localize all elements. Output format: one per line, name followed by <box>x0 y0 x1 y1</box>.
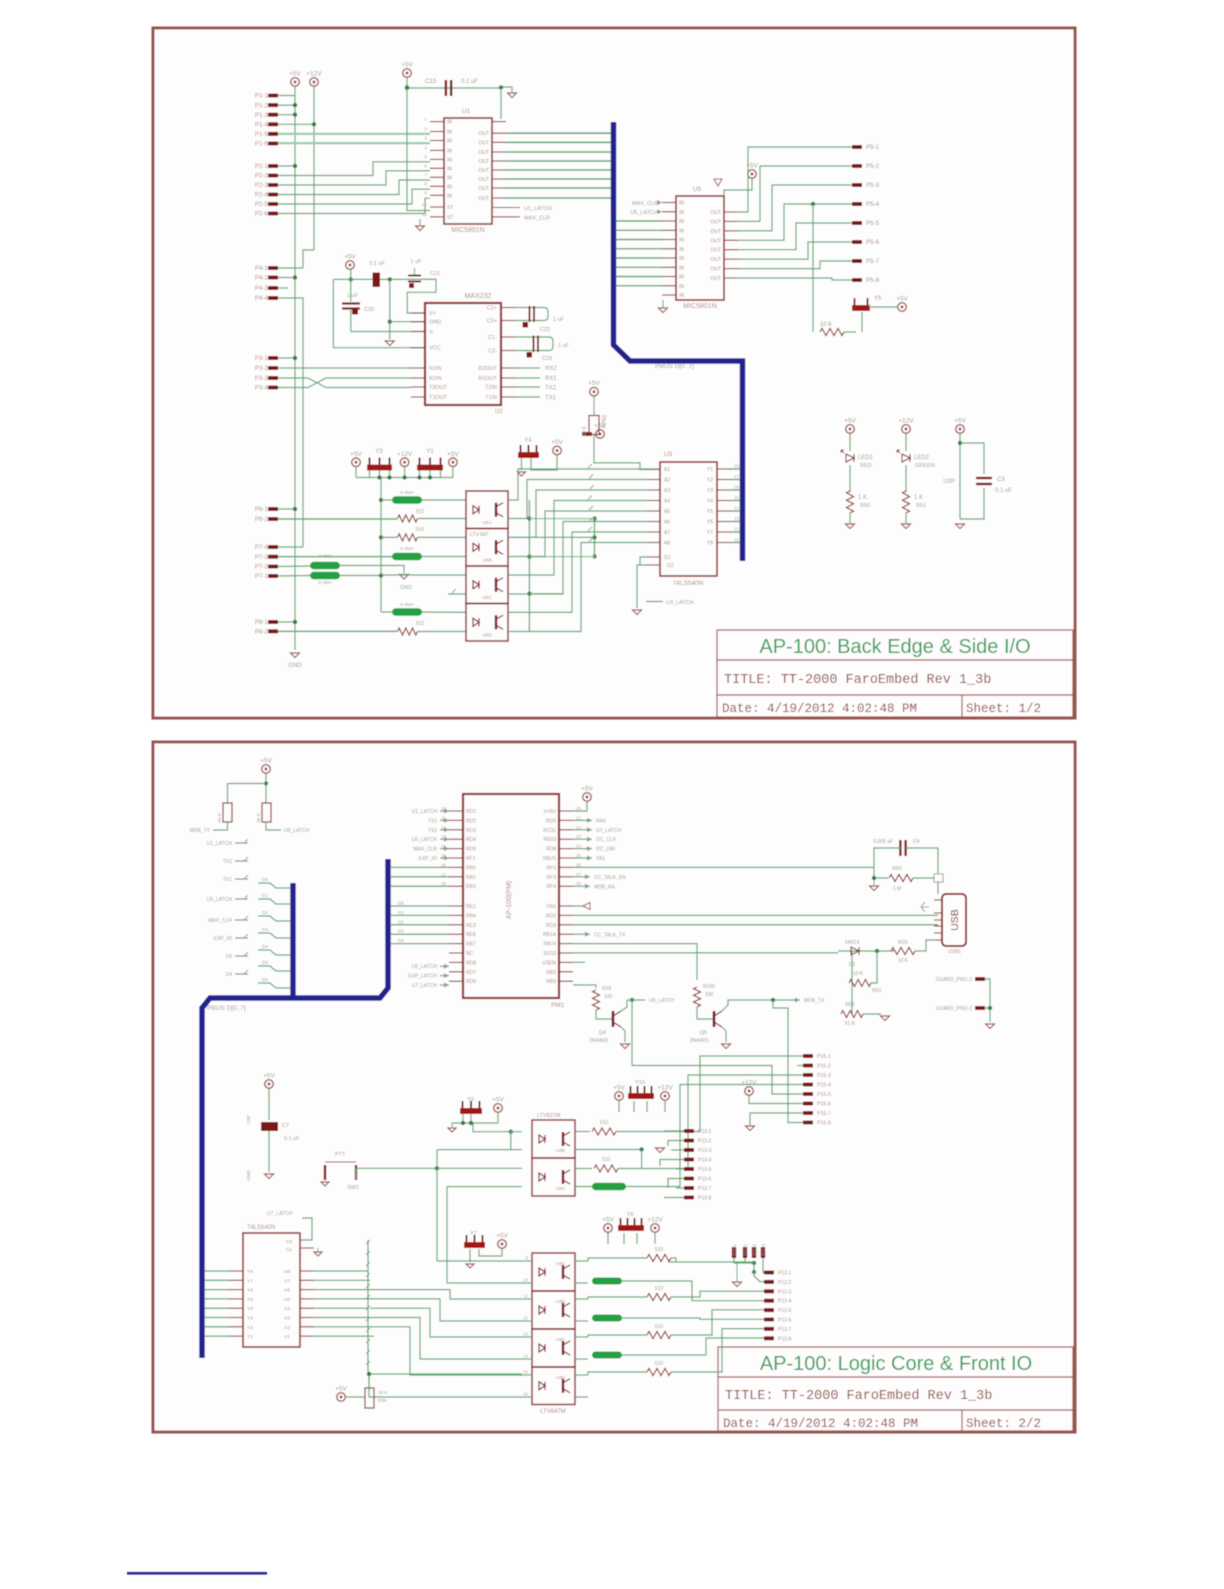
wire U3 Y8 to bus <box>731 542 740 544</box>
transistor Q4 2N4403 <box>613 1011 621 1027</box>
svg-text:P6-1: P6-1 <box>255 506 269 513</box>
power +5V pullups <box>260 758 272 774</box>
svg-text:LTV827M: LTV827M <box>537 1113 561 1119</box>
capacitor C23 loop <box>515 337 553 351</box>
resistor 510 out row3 <box>647 1332 671 1339</box>
wire bus to U6 2 <box>205 1289 229 1291</box>
capacitor C21 1uF <box>414 268 416 276</box>
svg-text:+5V: +5V <box>289 71 301 78</box>
wire down to R68 <box>851 983 853 1014</box>
wire LED1 top <box>849 434 851 452</box>
svg-text:OUT: OUT <box>478 196 489 202</box>
wire LED2 bottom <box>905 513 907 524</box>
svg-text:7: 7 <box>424 172 427 178</box>
wire LED2 top <box>905 434 907 452</box>
svg-text:21: 21 <box>576 815 581 820</box>
wire to diode D2 row <box>573 952 838 954</box>
wire RB0 long right <box>573 866 874 868</box>
svg-text:R1IN: R1IN <box>429 376 442 382</box>
svg-text:P15-2: P15-2 <box>817 1064 831 1070</box>
svg-text:28: 28 <box>576 881 581 886</box>
wire C7 top <box>268 1089 270 1121</box>
PM1 right pin RE03 <box>559 838 573 840</box>
svg-text:20: 20 <box>576 806 581 811</box>
wire U5 out to P5-3 <box>738 185 852 231</box>
junction MDB_TX <box>771 998 775 1002</box>
pin P11-1 vertical <box>732 1247 736 1258</box>
wire riser 437 <box>436 1150 438 1261</box>
label I2C_CLK from PM1 <box>573 838 592 840</box>
svg-text:U3P: U3P <box>246 1115 252 1124</box>
ground at C13 right <box>501 87 512 92</box>
wire P1-6 to U1 <box>278 142 430 144</box>
U2 pin V- <box>411 331 425 333</box>
pin P2-5 <box>268 202 278 206</box>
svg-text:OUT: OUT <box>710 229 721 235</box>
sheet 2 frame <box>153 742 1075 1432</box>
pin P2-1 <box>268 164 278 168</box>
svg-text:C13: C13 <box>425 79 437 85</box>
svg-text:P15-8: P15-8 <box>817 1121 831 1127</box>
U3 pin Y6 <box>717 521 731 523</box>
svg-text:EE03: EE03 <box>544 951 556 957</box>
wire bus tap to PM1 lower <box>391 924 449 926</box>
wire row4 P7-3 <box>278 556 392 558</box>
U1 output pin 8 <box>492 197 506 199</box>
svg-text:PBUS D[0..7]: PBUS D[0..7] <box>655 363 694 370</box>
svg-text:PM1: PM1 <box>551 1002 565 1009</box>
wire Y9 rail <box>452 1122 473 1124</box>
svg-text:P7-1: P7-1 <box>255 573 269 580</box>
svg-text:Y10: Y10 <box>635 1080 645 1086</box>
pin P15-5 <box>803 1092 813 1096</box>
wire +12V jog <box>303 250 314 268</box>
wire row6 P8-2 <box>278 630 398 632</box>
svg-text:A1: A1 <box>664 467 670 473</box>
wire U5 out to P5-4 <box>738 204 852 240</box>
svg-text:510: 510 <box>602 1157 611 1163</box>
U5 output pin 5 <box>724 249 738 251</box>
crystal Y4 <box>521 445 537 452</box>
power +5V opto row <box>350 451 362 467</box>
svg-text:TITLE: TT-2000 FaroEmbed Rev: TITLE: TT-2000 FaroEmbed Rev 1_3b <box>724 673 991 688</box>
wire Q4 base net <box>573 985 596 988</box>
svg-text:10 K: 10 K <box>853 971 864 977</box>
svg-text:Y1: Y1 <box>247 1334 253 1340</box>
svg-text:0.1 uF: 0.1 uF <box>369 261 385 267</box>
wire G2 latch <box>637 565 646 608</box>
U8 outputs row1 <box>575 1131 590 1133</box>
U5 left pin <box>662 220 676 222</box>
svg-text:D1: D1 <box>398 910 404 915</box>
svg-text:RB7: RB7 <box>466 942 476 948</box>
U1 strobe pin wire <box>492 207 520 209</box>
svg-text:SW1: SW1 <box>347 1185 359 1191</box>
svg-text:Y4: Y4 <box>247 1306 253 1312</box>
svg-text:Y7: Y7 <box>470 1231 477 1237</box>
junction P1-3 <box>293 113 297 117</box>
svg-text:Y9: Y9 <box>467 1097 474 1103</box>
ground SW1 <box>321 1182 329 1186</box>
svg-text:100: 100 <box>705 992 714 998</box>
svg-text:P7-2: P7-2 <box>255 564 269 571</box>
wire bus to U5 pin 6 <box>616 266 662 268</box>
svg-text:P7-4: P7-4 <box>255 544 269 551</box>
wire U9 out 6 <box>575 1374 588 1376</box>
svg-text:510: 510 <box>600 1120 609 1126</box>
U2 pin C1+ <box>501 307 515 309</box>
pin P4-2 <box>268 276 278 280</box>
svg-text:10: 10 <box>523 1278 528 1283</box>
svg-text:IN: IN <box>679 219 684 225</box>
svg-text:Sheet: 1/2: Sheet: 1/2 <box>966 702 1041 716</box>
pin P2-4 <box>268 193 278 197</box>
U5 left pin <box>662 211 676 213</box>
wire U3 Y2 to bus <box>731 479 740 481</box>
svg-text:0 ohm: 0 ohm <box>318 580 331 586</box>
capacitor C22 plates <box>530 306 535 322</box>
bus tap D6 <box>258 983 290 988</box>
wire R69 to pad <box>913 877 934 879</box>
svg-text:A6: A6 <box>284 1288 290 1294</box>
svg-text:IN: IN <box>447 184 452 190</box>
wire U1 out2 to bus <box>506 141 611 143</box>
svg-text:A2: A2 <box>284 1325 290 1331</box>
svg-text:Y7: Y7 <box>247 1278 253 1284</box>
wire U9 out 4 <box>575 1336 588 1338</box>
svg-text:RX1: RX1 <box>545 376 557 382</box>
svg-text:RED: RED <box>860 463 872 469</box>
svg-text:Y4: Y4 <box>707 499 713 505</box>
pin P12-8 <box>764 1336 774 1340</box>
pin P15-8 <box>803 1121 813 1125</box>
wire Y7 stubs <box>469 1249 471 1262</box>
svg-text:P7-3: P7-3 <box>255 554 269 561</box>
wire D2 diode row <box>838 950 894 952</box>
svg-text:+12V: +12V <box>741 1080 757 1087</box>
wire G1 feed <box>640 557 646 565</box>
wire R63 right <box>871 951 877 983</box>
capacitor C3 <box>976 478 992 484</box>
wire P3-1 <box>278 357 295 359</box>
svg-text:OUT: OUT <box>710 219 721 225</box>
U6 pin Y4 <box>229 1307 243 1309</box>
wire RPN2 top leg <box>227 784 229 804</box>
svg-text:IN: IN <box>447 175 452 181</box>
svg-text:0 ohm: 0 ohm <box>400 546 413 552</box>
bus tap D0 <box>258 883 290 888</box>
svg-text:D0: D0 <box>398 901 404 906</box>
svg-text:30 K: 30 K <box>217 812 223 823</box>
wire bus tap to PM1 lower <box>391 905 449 907</box>
bus tap D3 <box>258 933 290 938</box>
svg-text:P13-7: P13-7 <box>698 1186 712 1192</box>
pin P12-1 <box>764 1271 774 1275</box>
power +5V C3 <box>954 418 966 434</box>
PM1 left pin RD5 <box>449 848 463 850</box>
wire U5 out to P5-8 <box>738 278 852 280</box>
svg-text:R18: R18 <box>602 986 611 992</box>
IC U6 74LS540N box <box>243 1233 300 1347</box>
svg-text:P2-6: P2-6 <box>255 211 269 218</box>
svg-text:+5V: +5V <box>588 380 600 387</box>
resistor R50 1K <box>847 491 854 513</box>
svg-text:10: 10 <box>422 202 428 208</box>
svg-text:OUT: OUT <box>478 186 489 192</box>
wire U1 out3 to bus <box>506 151 611 153</box>
U6 output 6 <box>300 1317 314 1319</box>
pin P5-6 <box>852 240 862 244</box>
svg-text:A7: A7 <box>284 1278 290 1284</box>
wire bus tap to PM1 lower <box>391 933 449 935</box>
pin P4-1 <box>268 266 278 270</box>
svg-text:MIC5801N: MIC5801N <box>683 303 716 310</box>
optocoupler U6 cell 3 <box>466 566 508 604</box>
resistor green 0ohm row1 <box>392 496 422 504</box>
svg-text:RB4: RB4 <box>466 913 476 919</box>
svg-text:R50: R50 <box>860 503 870 509</box>
resistor green U9 row3 <box>592 1352 622 1359</box>
svg-text:ST: ST <box>447 215 453 221</box>
svg-text:P3-3: P3-3 <box>255 375 269 382</box>
resistor RPN3 <box>262 803 271 822</box>
svg-text:TX2: TX2 <box>223 859 232 865</box>
wire U1 VDD drop <box>500 88 502 119</box>
svg-text:3: 3 <box>424 136 427 142</box>
svg-text:0.1 uF: 0.1 uF <box>461 79 478 85</box>
U6 output 4 <box>300 1298 314 1300</box>
U1 left pin <box>430 185 444 187</box>
U5 output pin 6 <box>724 258 738 260</box>
pin P15-2 <box>803 1064 813 1068</box>
wire bus to U6 5 <box>205 1317 229 1319</box>
ground guards <box>986 1024 995 1029</box>
resistor 510 U8 row1 <box>592 1128 616 1135</box>
svg-text:P2-5: P2-5 <box>255 201 269 208</box>
svg-text:RD2: RD2 <box>546 913 556 919</box>
pin P2-2 <box>268 174 278 178</box>
PM1 right pin RF3 <box>559 876 573 878</box>
svg-text:OUT: OUT <box>478 150 489 156</box>
svg-text:1 uF: 1 uF <box>410 259 422 265</box>
wire U1 out6 to bus <box>506 178 611 180</box>
svg-text:T2OUT: T2OUT <box>429 385 448 391</box>
svg-text:U3_LATCH: U3_LATCH <box>666 600 694 606</box>
wires 510 rows to P12 <box>671 1258 676 1262</box>
pin P3-3 <box>268 376 278 380</box>
svg-text:RB2: RB2 <box>546 970 556 976</box>
svg-text:IN: IN <box>447 193 452 199</box>
wire bottom resistor up <box>368 1374 370 1388</box>
svg-text:P5-3: P5-3 <box>866 182 880 189</box>
PM1 right pin RF4 <box>559 885 573 887</box>
junction P5-4 tap <box>811 202 815 206</box>
svg-text:P13-3: P13-3 <box>698 1148 712 1154</box>
svg-text:U8_LATCH: U8_LATCH <box>284 828 310 834</box>
svg-text:U1_LATCH: U1_LATCH <box>207 841 233 847</box>
svg-text:C2-: C2- <box>488 349 497 355</box>
U5 left pin <box>662 285 676 287</box>
U5 output pin 8 <box>724 277 738 279</box>
svg-text:510: 510 <box>655 1361 664 1367</box>
pin P15-4 <box>803 1083 813 1087</box>
power +5V PM1 <box>581 786 593 802</box>
svg-text:Y7: Y7 <box>707 530 713 536</box>
svg-text:P3-4: P3-4 <box>255 385 269 392</box>
svg-text:Sheet: 2/2: Sheet: 2/2 <box>966 1417 1041 1431</box>
svg-text:C22: C22 <box>540 327 550 333</box>
wire row1 right <box>616 1056 803 1132</box>
PM1 right pin RC31 <box>559 829 573 831</box>
pin P5-4 <box>852 202 862 206</box>
svg-text:G1: G1 <box>664 555 671 561</box>
svg-text:P1-6: P1-6 <box>255 141 269 148</box>
svg-text:+5V: +5V <box>263 1073 275 1080</box>
svg-text:+5V: +5V <box>581 786 593 793</box>
svg-text:U1_LATCH: U1_LATCH <box>412 809 438 815</box>
pin P15-1 <box>803 1054 813 1058</box>
svg-text:P5-1: P5-1 <box>866 144 880 151</box>
pin P3-4 <box>268 386 278 390</box>
svg-text:PBUS D[0..7]: PBUS D[0..7] <box>207 1005 246 1012</box>
wire P2-6 staircase <box>278 198 430 213</box>
wire C3 top link <box>960 443 984 474</box>
power +5V C7 <box>263 1073 275 1089</box>
resistor R51 1K <box>903 491 910 513</box>
svg-text:16: 16 <box>523 1392 528 1397</box>
svg-text:OUT: OUT <box>478 177 489 183</box>
U1 left pin <box>430 216 444 218</box>
svg-text:U5_LATCH: U5_LATCH <box>207 897 233 903</box>
wire to GND pin <box>390 321 426 323</box>
ground P13 <box>656 1148 665 1153</box>
svg-text:P12-8: P12-8 <box>778 1336 792 1342</box>
optocoupler U6 cell 2 <box>466 529 508 567</box>
wire bus to U6 0 <box>205 1270 229 1272</box>
ground U3 latch <box>633 610 642 615</box>
resistor 510 out row2 <box>647 1294 671 1301</box>
sheet 1 frame <box>153 28 1075 718</box>
wire rail drop <box>380 478 382 613</box>
ground C7 <box>265 1174 274 1179</box>
PM1 left pin RD7 <box>449 971 463 973</box>
wire P15-2 stub <box>797 1065 803 1067</box>
pin P4-4 <box>268 296 278 300</box>
wire P7-4 <box>278 546 303 548</box>
svg-text:Y8: Y8 <box>707 541 713 547</box>
svg-text:2N4401: 2N4401 <box>690 1038 709 1044</box>
svg-text:TX1: TX1 <box>223 877 232 883</box>
U1 output pin 7 <box>492 187 506 189</box>
svg-text:RD0: RD0 <box>546 818 556 824</box>
svg-text:RB0: RB0 <box>466 865 476 871</box>
svg-text:GND: GND <box>246 1169 252 1180</box>
svg-text:D0: D0 <box>262 877 268 882</box>
U5 output pin 4 <box>724 239 738 241</box>
wire opto out 4 to U3 <box>508 511 646 557</box>
svg-text:RE2: RE2 <box>466 904 476 910</box>
svg-text:14: 14 <box>734 506 740 511</box>
wire USB D- long <box>573 924 938 926</box>
wire bus tap to PM1 lower <box>391 943 449 945</box>
svg-text:OUT: OUT <box>710 210 721 216</box>
resistor 510 row2 <box>398 515 418 522</box>
pin P15-3 <box>803 1073 813 1077</box>
U6 pin Y8 <box>229 1270 243 1272</box>
wire row5 right <box>422 611 466 613</box>
svg-text:IN: IN <box>447 148 452 154</box>
U2 pin T2IN <box>501 386 515 388</box>
U3 pin A4 <box>646 500 660 502</box>
PM1 left pin RF1 <box>449 857 463 859</box>
svg-text:16: 16 <box>734 485 740 490</box>
wire RX1 out <box>515 377 540 379</box>
U1 left pin <box>430 121 444 123</box>
svg-text:USEN: USEN <box>542 960 556 966</box>
svg-text:Q6: Q6 <box>700 1030 707 1036</box>
U3 pin Y5 <box>717 510 731 512</box>
net flag ladder <box>366 1306 370 1310</box>
svg-text:P13-5: P13-5 <box>698 1167 712 1173</box>
svg-text:+12V: +12V <box>306 71 322 78</box>
crystal Y10 <box>631 1086 652 1093</box>
pin P6-2 <box>268 517 278 521</box>
svg-text:P15-7: P15-7 <box>817 1111 831 1117</box>
svg-text:P12-2: P12-2 <box>778 1280 792 1286</box>
svg-text:T2IN: T2IN <box>485 385 497 391</box>
svg-text:P2-3: P2-3 <box>255 182 269 189</box>
PM1 left pin RB0 <box>449 866 463 868</box>
wire U9 out 5 <box>575 1358 588 1360</box>
svg-text:IN: IN <box>679 201 684 207</box>
pin P13-2 <box>684 1139 694 1143</box>
svg-text:GND: GND <box>400 585 412 591</box>
wire +5V stem to C13 net <box>406 78 408 89</box>
USB pin stubs <box>934 899 942 901</box>
svg-text:IN: IN <box>679 265 684 271</box>
wire bus tap to PM1 lower <box>391 914 449 916</box>
svg-text:P15-1: P15-1 <box>817 1054 831 1060</box>
svg-text:P13-4: P13-4 <box>698 1158 712 1164</box>
wire C20 to V- pin <box>351 310 426 332</box>
net flag ladder <box>366 1240 370 1244</box>
wire cell2 upper feed <box>437 1167 522 1169</box>
svg-text:+5V: +5V <box>344 254 356 261</box>
resistor 510 row6 <box>398 628 418 635</box>
svg-text:Y5: Y5 <box>247 1297 253 1303</box>
PM1 right pin RD8 <box>559 848 573 850</box>
wire P2-5 staircase <box>278 189 430 204</box>
PM1 left pin RB1 <box>449 876 463 878</box>
svg-text:11: 11 <box>422 212 427 218</box>
U1 V+ pin <box>492 121 506 123</box>
resistor 510 U8 row2 <box>594 1165 618 1172</box>
svg-text:RD6: RD6 <box>466 979 476 985</box>
svg-text:2N4403: 2N4403 <box>589 1038 608 1044</box>
wire Y4 stubs <box>521 458 523 470</box>
svg-text:0 ohm: 0 ohm <box>318 554 331 560</box>
svg-text:D2: D2 <box>398 919 404 924</box>
wire P2-4 staircase <box>278 180 430 195</box>
wire P4-4 drop <box>278 298 303 547</box>
svg-text:MDB_TX: MDB_TX <box>804 998 825 1004</box>
svg-text:IN: IN <box>679 210 684 216</box>
svg-text:I2C_CLK: I2C_CLK <box>596 837 617 843</box>
svg-text:1 K: 1 K <box>914 495 923 501</box>
svg-text:RD2: RD2 <box>466 818 476 824</box>
junction Q4 node <box>630 998 634 1002</box>
svg-text:100: 100 <box>604 994 613 1000</box>
